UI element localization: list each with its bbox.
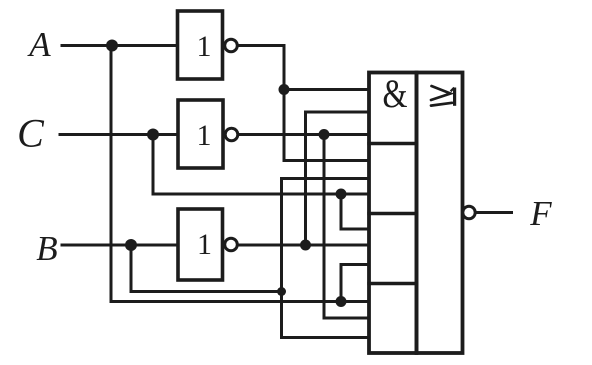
wire A vertical drop x=111 <box>111 46 369 302</box>
node C-to-AND junction dot <box>336 189 347 200</box>
wire B' branch up to AND section1 <box>306 112 370 245</box>
svg-text:1: 1 <box>197 228 212 261</box>
inverter U1 box <box>178 11 223 79</box>
inverter U3 box <box>178 209 223 280</box>
svg-text:B: B <box>36 229 57 268</box>
wire input B horizontal <box>62 244 178 247</box>
wire output F <box>476 211 512 214</box>
OR block U5 outline <box>417 73 463 354</box>
wire C branch down and right y=194 <box>153 135 369 195</box>
node B junction dot <box>125 239 137 251</box>
AND block divider 3 <box>369 282 417 285</box>
node A junction dot <box>106 40 118 52</box>
node A' junction dot <box>279 84 290 95</box>
wire C branch down to AND section3 <box>341 194 369 229</box>
wire C' branch down to AND section4 <box>324 135 369 319</box>
node A-to-AND junction dot <box>336 296 347 307</box>
node C junction dot <box>147 129 159 141</box>
label OR symbol digit 1 <box>451 88 455 106</box>
svg-text:1: 1 <box>197 119 212 152</box>
wire input C horizontal <box>60 133 178 136</box>
svg-text:&: & <box>383 71 408 116</box>
wire B branch to AND section4 <box>282 336 370 339</box>
wire inverter U2 output C' to AND section1 <box>238 133 370 136</box>
wire B riser x=281.5 up to AND section2 <box>282 179 370 338</box>
inverter U1 bubble <box>225 39 238 52</box>
AND block divider 1 <box>369 142 417 145</box>
node B-to-riser junction dot <box>277 287 286 296</box>
inverter U2 bubble <box>225 128 238 141</box>
wire inverter U1 output to corner <box>238 46 370 161</box>
wire A branch up to AND section3 <box>341 265 369 302</box>
node C' junction dot <box>319 129 330 140</box>
inverter U2 box <box>178 100 223 168</box>
wire inverter U3 output B' to AND section3 <box>238 244 370 247</box>
inverter U3 bubble <box>225 238 238 251</box>
svg-text:F: F <box>529 194 552 233</box>
label OR symbol greater-equal strokes <box>431 86 452 106</box>
OR output bubble <box>463 206 475 218</box>
wire A' branch to AND section1 <box>284 88 369 91</box>
wire B branch down and right y=291.5 <box>131 245 282 292</box>
node B' junction dot <box>300 240 311 251</box>
svg-text:C: C <box>17 111 45 156</box>
svg-text:1: 1 <box>197 30 212 63</box>
AND block U4 outline <box>369 73 417 354</box>
wire input A horizontal <box>62 44 178 47</box>
AND block divider 2 <box>369 212 417 215</box>
svg-text:A: A <box>27 25 51 64</box>
